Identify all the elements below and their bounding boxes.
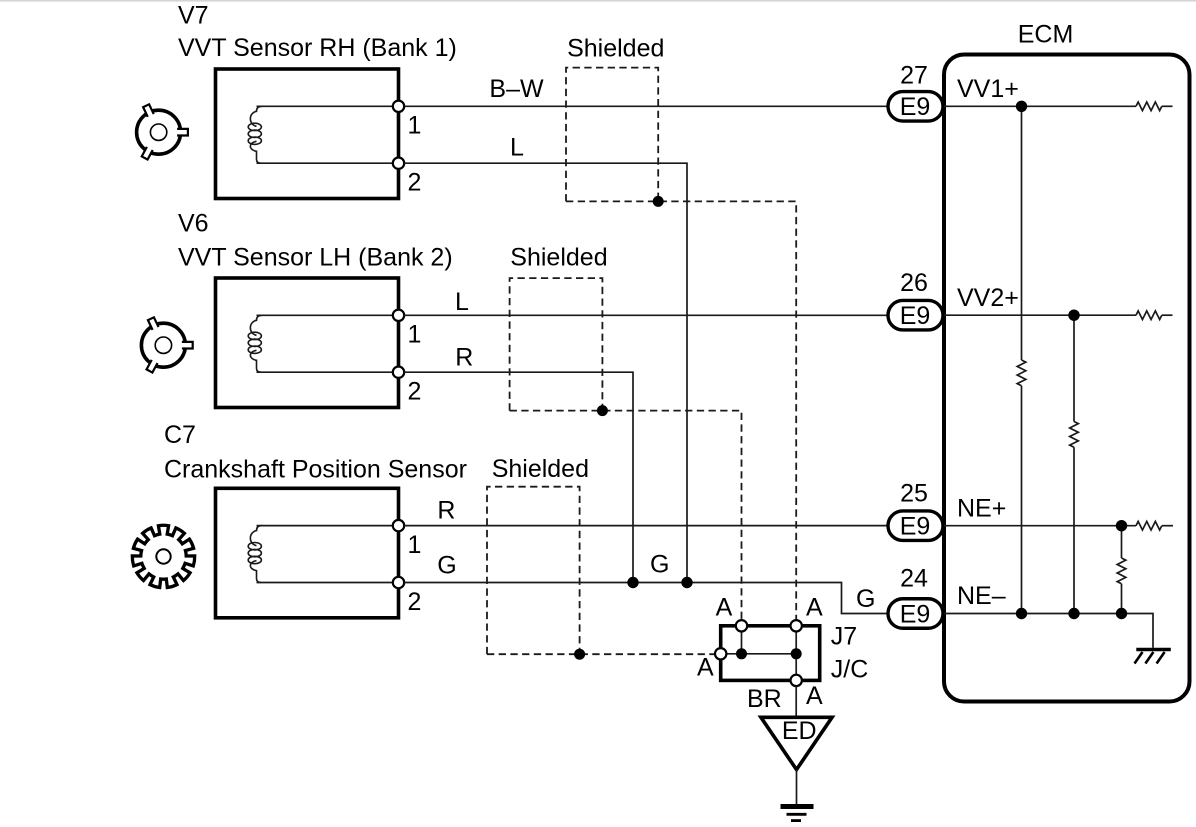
shield 1 drain dashed wire to J/C pin A xyxy=(566,201,796,620)
junction node: L wire joins G wire xyxy=(681,577,692,588)
svg-text:2: 2 xyxy=(408,378,422,406)
J/C internal junction dot right xyxy=(791,648,802,659)
svg-text:Shielded: Shielded xyxy=(492,455,589,483)
wire V6 coil to pin 1 xyxy=(257,314,399,316)
svg-text:E9: E9 xyxy=(900,93,931,121)
NE+ internal wire with resistor xyxy=(944,525,1136,527)
svg-text:VVT Sensor LH (Bank 2): VVT Sensor LH (Bank 2) xyxy=(178,243,453,271)
svg-text:R: R xyxy=(437,497,455,525)
gear hub hole xyxy=(156,549,170,563)
svg-text:ED: ED xyxy=(782,717,817,745)
junction dot NE- middle xyxy=(1068,608,1079,619)
pin 1 terminal of V7 xyxy=(393,101,404,112)
connector E9 pin 27 oval xyxy=(888,92,943,122)
wire L: V6 pin1 to E9-26 xyxy=(404,314,886,316)
svg-text:Crankshaft Position Sensor: Crankshaft Position Sensor xyxy=(164,455,467,483)
pin 2 terminal of V7 xyxy=(393,158,404,169)
wire L: V7 pin2 right then down to G node xyxy=(404,163,687,582)
svg-text:A: A xyxy=(716,594,733,622)
junction dot NE+ xyxy=(1116,520,1127,531)
internal vertical wire VV1+ to NE- with resistor xyxy=(1021,106,1023,360)
J/C pin A top-right xyxy=(791,620,802,631)
sensor C7 box xyxy=(216,488,399,618)
svg-text:A: A xyxy=(806,682,823,710)
J/C internal junction dot left xyxy=(736,648,747,659)
svg-text:G: G xyxy=(650,550,669,578)
J/C internal wire top-right pin to bottom pin xyxy=(795,626,797,681)
svg-text:C7: C7 xyxy=(164,421,196,449)
svg-text:24: 24 xyxy=(900,565,928,593)
svg-text:A: A xyxy=(806,593,823,621)
wire BR: J/C bottom pin to ED ground triangle xyxy=(795,686,797,717)
svg-text:L: L xyxy=(510,134,524,162)
wire C7 coil to pin 1 xyxy=(257,525,399,527)
coil (V7 pickup coil winding) xyxy=(248,106,262,163)
sensor V7 box xyxy=(216,69,399,199)
pin 2 terminal of V6 xyxy=(393,367,404,378)
svg-text:26: 26 xyxy=(900,269,928,297)
shield 2 dashed box (V6 wires) xyxy=(510,278,603,411)
svg-text:NE–: NE– xyxy=(957,582,1006,610)
svg-text:2: 2 xyxy=(408,169,422,197)
connector E9 pin 26 oval xyxy=(888,300,943,330)
wire G: C7 pin2 to E9-24 via corner xyxy=(404,583,886,614)
shield 3 drain dashed wire to J/C left pin A xyxy=(487,653,715,655)
pin 2 terminal of C7 xyxy=(393,577,404,588)
svg-text:G: G xyxy=(437,552,456,580)
J/C pin A left xyxy=(715,648,726,659)
shield 1 drain junction dot xyxy=(653,196,664,207)
wire ED triangle to ground xyxy=(796,770,798,805)
NE- internal wire to chassis ground xyxy=(944,614,1153,648)
svg-text:V6: V6 xyxy=(178,209,209,237)
wire V7 coil to pin 2 xyxy=(257,162,399,164)
svg-text:BR: BR xyxy=(747,685,782,713)
svg-text:E9: E9 xyxy=(900,302,931,330)
wire R: C7 pin1 to E9-25 xyxy=(404,525,886,527)
svg-text:NE+: NE+ xyxy=(957,494,1006,522)
shield 1 dashed box (V7 wires) xyxy=(566,68,658,202)
junction dot VV2+ xyxy=(1068,310,1079,321)
connector E9 pin 24 oval xyxy=(888,599,943,629)
junction node: R wire joins G wire xyxy=(627,577,638,588)
shield 2 drain dashed wire to J/C pin A xyxy=(510,411,742,620)
internal vertical wire VV2+ to NE- with resistor xyxy=(1073,315,1075,421)
svg-text:G: G xyxy=(856,585,875,613)
J/C pin A bottom xyxy=(791,675,802,686)
svg-text:1: 1 xyxy=(408,321,422,349)
J/C internal wire top-left pin down xyxy=(741,626,743,654)
sensor V6 box xyxy=(216,278,399,408)
svg-text:VVT Sensor RH (Bank 1): VVT Sensor RH (Bank 1) xyxy=(178,34,457,62)
wire B-W: V7 pin1 to E9-27 xyxy=(404,105,886,107)
svg-text:J/C: J/C xyxy=(831,656,869,684)
ECM box xyxy=(944,55,1190,702)
wire V6 coil to pin 2 xyxy=(257,371,399,373)
crankshaft sensor gear rotor icon xyxy=(132,525,194,587)
svg-text:B–W: B–W xyxy=(489,75,544,103)
VVT sensor LH rotor icon xyxy=(141,317,192,372)
svg-text:Shielded: Shielded xyxy=(567,35,664,63)
wire V7 coil to pin 1 xyxy=(257,105,399,107)
VVT sensor RH rotor icon xyxy=(137,104,188,159)
junction connector J7 J/C box xyxy=(721,626,820,681)
ground symbol (earth) below ED xyxy=(781,807,814,821)
J/C internal wire left pin to right xyxy=(721,653,797,655)
svg-text:V7: V7 xyxy=(178,1,209,29)
svg-text:A: A xyxy=(697,654,714,682)
wire R: V6 pin2 right then down to G node xyxy=(404,372,633,582)
coil (C7 pickup coil winding) xyxy=(248,526,262,583)
svg-text:E9: E9 xyxy=(900,513,931,541)
svg-text:VV2+: VV2+ xyxy=(957,284,1019,312)
svg-text:J7: J7 xyxy=(831,623,857,651)
connector E9 pin 25 oval xyxy=(888,511,943,541)
svg-text:Shielded: Shielded xyxy=(510,244,607,272)
junction dot NE- right xyxy=(1116,608,1127,619)
wire C7 coil to pin 2 xyxy=(257,582,399,584)
svg-text:1: 1 xyxy=(408,531,422,559)
pin 1 terminal of V6 xyxy=(393,310,404,321)
VV1+ internal wire with resistor xyxy=(944,105,1136,107)
internal vertical wire NE+ to NE- with resistor xyxy=(1121,526,1123,558)
ED ground point triangle xyxy=(761,717,832,769)
pin 1 terminal of C7 xyxy=(393,520,404,531)
svg-text:E9: E9 xyxy=(900,600,931,628)
shield 3 dashed box (C7 wires) xyxy=(487,487,580,655)
junction dot NE- left xyxy=(1016,608,1027,619)
svg-text:ECM: ECM xyxy=(1018,21,1074,49)
svg-text:1: 1 xyxy=(408,112,422,140)
shield 2 drain junction dot xyxy=(597,405,608,416)
svg-text:27: 27 xyxy=(900,61,928,89)
VV2+ internal wire with resistor xyxy=(944,314,1136,316)
coil (V6 pickup coil winding) xyxy=(248,315,262,372)
svg-text:VV1+: VV1+ xyxy=(957,75,1019,103)
junction dot VV1+ xyxy=(1016,101,1027,112)
svg-text:25: 25 xyxy=(900,480,928,508)
svg-text:L: L xyxy=(455,288,469,316)
chassis ground symbol inside ECM xyxy=(1135,650,1171,664)
J/C pin A top-left xyxy=(736,620,747,631)
shield 3 drain junction dot xyxy=(574,649,585,660)
svg-text:2: 2 xyxy=(408,588,422,616)
svg-text:R: R xyxy=(455,343,473,371)
